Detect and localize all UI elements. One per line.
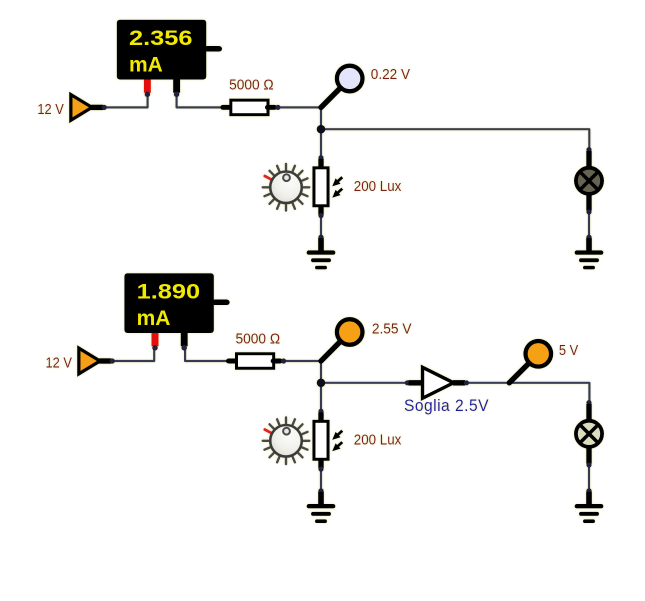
svg-text:0.22 V: 0.22 V bbox=[371, 66, 411, 83]
svg-text:Soglia 2.5V: Soglia 2.5V bbox=[404, 397, 489, 415]
svg-text:5000 Ω: 5000 Ω bbox=[229, 76, 274, 93]
svg-text:12 V: 12 V bbox=[46, 354, 73, 371]
svg-text:200 Lux: 200 Lux bbox=[354, 431, 402, 448]
svg-text:5 V: 5 V bbox=[559, 342, 579, 359]
svg-text:2.55 V: 2.55 V bbox=[372, 320, 412, 337]
svg-text:mA: mA bbox=[129, 53, 163, 77]
svg-text:mA: mA bbox=[137, 306, 171, 330]
svg-text:1.890: 1.890 bbox=[137, 280, 201, 304]
svg-text:12 V: 12 V bbox=[37, 101, 64, 118]
svg-text:2.356: 2.356 bbox=[129, 26, 193, 50]
svg-text:5000 Ω: 5000 Ω bbox=[236, 331, 281, 348]
svg-text:200 Lux: 200 Lux bbox=[354, 178, 402, 195]
